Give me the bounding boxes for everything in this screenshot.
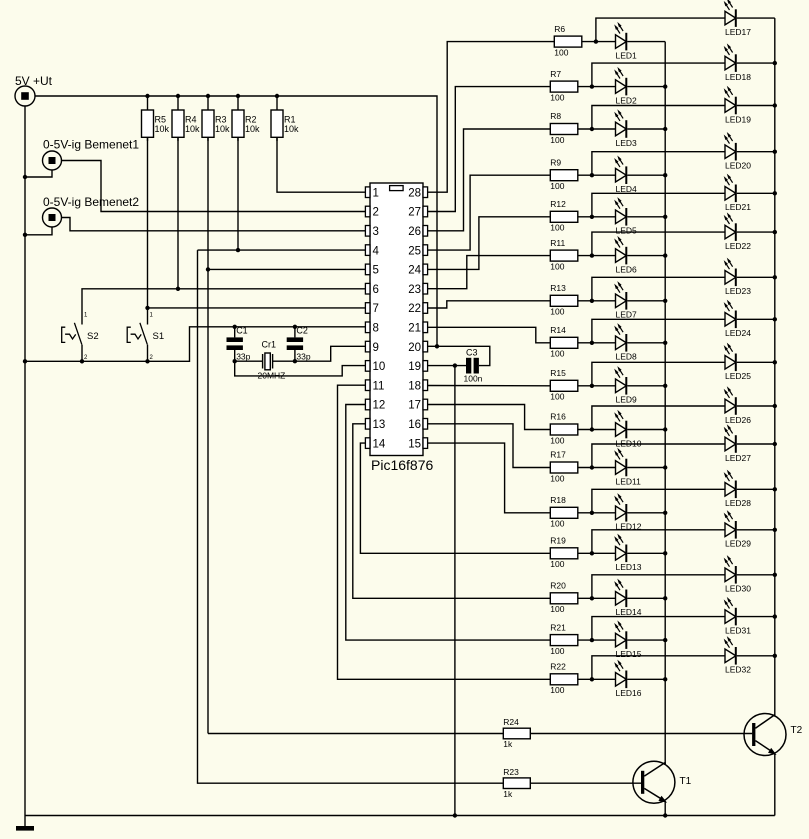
junction node row14 (590, 596, 594, 600)
wire Bemenet2 ground (25, 227, 52, 235)
wire pin5 to R24 (208, 733, 503, 735)
svg-text:LED24: LED24 (725, 328, 751, 338)
LED10 (614, 410, 642, 449)
wire node to LED22 (592, 232, 725, 256)
svg-text:S2: S2 (87, 331, 99, 342)
svg-text:100n: 100n (464, 374, 483, 384)
wire node to LED27 (592, 444, 725, 468)
svg-text:9: 9 (373, 342, 379, 354)
svg-text:10k: 10k (215, 124, 230, 134)
LED16 (614, 660, 642, 699)
junction LED25 bus (773, 360, 777, 364)
svg-text:LED18: LED18 (725, 72, 751, 82)
capacitor C1 33p (227, 326, 251, 362)
wire pin6 net (82, 289, 365, 325)
resistor R7 100 (550, 69, 578, 103)
resistor R9 100 (550, 157, 578, 191)
junction node row8 (590, 341, 594, 345)
wire LED15 cathode (627, 639, 665, 641)
junction LED23 bus (773, 275, 777, 279)
wire LED4 cathode (627, 174, 665, 176)
junction node row6 (590, 253, 594, 257)
svg-text:100: 100 (550, 92, 564, 102)
wire T1 emitter (664, 801, 666, 815)
LED3 (614, 109, 637, 148)
svg-text:100: 100 (550, 604, 564, 614)
junction LED12 bus (663, 511, 667, 515)
svg-text:R8: R8 (550, 111, 561, 121)
svg-text:100: 100 (550, 519, 564, 529)
junction LED5 bus (663, 215, 667, 219)
wire R19 to LED13 (578, 552, 616, 554)
wire LED30 cathode (737, 574, 775, 576)
wire LED31 cathode (737, 616, 775, 618)
svg-text:4: 4 (373, 245, 380, 257)
svg-text:10k: 10k (284, 124, 299, 134)
wire ground rail (25, 815, 775, 817)
svg-text:15: 15 (408, 438, 421, 450)
junction LED27 bus (773, 442, 777, 446)
svg-text:C3: C3 (466, 348, 478, 358)
LED2 (614, 67, 637, 106)
svg-text:100: 100 (550, 349, 564, 359)
svg-text:LED19: LED19 (725, 114, 751, 124)
svg-text:100: 100 (550, 392, 564, 402)
wire S1 bottom junction (145, 359, 149, 363)
LED11 (614, 448, 641, 487)
svg-text:24: 24 (408, 265, 421, 277)
svg-text:20: 20 (408, 342, 421, 354)
LED5 (614, 197, 637, 236)
LED22 (724, 212, 752, 251)
svg-text:LED22: LED22 (725, 241, 751, 251)
wire C1 node to pin10 (235, 361, 366, 376)
svg-text:LED16: LED16 (616, 688, 642, 698)
junction +5V/R3 (206, 94, 210, 98)
wire R11 to LED6 (578, 255, 616, 257)
svg-text:R15: R15 (550, 368, 566, 378)
wire node to LED17 (596, 18, 725, 41)
junction LED21 bus (773, 191, 777, 195)
wire R18 to LED12 (578, 512, 616, 514)
junction LED15 bus (663, 638, 667, 642)
junction node row11 (590, 465, 594, 469)
junction LED24 bus (773, 317, 777, 321)
svg-text:LED15: LED15 (616, 649, 642, 659)
wire LED19 cathode (737, 105, 775, 107)
LED8 (614, 323, 637, 362)
resistor R11 100 (550, 238, 578, 272)
switch S2 (62, 313, 99, 362)
wire pin4 to R23 (198, 250, 504, 783)
wire R21 to LED15 (578, 639, 616, 641)
LED19 (724, 86, 752, 125)
junction LED18 bus (773, 61, 777, 65)
LED31 (724, 597, 752, 636)
junction C1 bottom (233, 359, 237, 363)
wire LED8 cathode (627, 342, 665, 344)
wire R13 to LED7 (578, 300, 616, 302)
svg-text:LED28: LED28 (725, 498, 751, 508)
junction node row2 (590, 84, 594, 88)
svg-text:100: 100 (550, 135, 564, 145)
LED20 (724, 132, 752, 171)
svg-text:R9: R9 (550, 157, 561, 167)
junction LED19 bus (773, 103, 777, 107)
junction Bemenet2 gnd (23, 233, 27, 237)
wire pin19 VSS (428, 365, 466, 367)
wire R2 to pin4 net (237, 137, 239, 250)
svg-text:LED20: LED20 (725, 161, 751, 171)
wire LED1 cathode (627, 41, 665, 43)
svg-text:8: 8 (373, 323, 379, 335)
wire pin23 to R11 (428, 256, 551, 289)
junction LED3 bus (663, 127, 667, 131)
svg-text:100: 100 (550, 307, 564, 317)
svg-text:100: 100 (550, 181, 564, 191)
connector Bemenet1 (43, 138, 140, 171)
svg-text:LED25: LED25 (725, 371, 751, 381)
junction LED11 bus (663, 465, 667, 469)
power connector 5V +Ut (15, 74, 53, 106)
svg-text:6: 6 (373, 284, 379, 296)
junction R2/pin4 (236, 248, 240, 252)
wire LED22 cathode (737, 231, 775, 233)
svg-text:LED11: LED11 (616, 476, 642, 486)
svg-text:T2: T2 (791, 725, 803, 736)
wire T2 emitter (774, 754, 776, 816)
wire node to LED25 (592, 362, 725, 386)
junction node row16 (590, 677, 594, 681)
svg-text:10k: 10k (245, 124, 260, 134)
wire pin8 ground net (25, 327, 365, 362)
LED7 (614, 281, 637, 320)
junction R5/S1/pin7 (145, 306, 149, 310)
wire T1 collector (664, 763, 666, 765)
wire R5 to S1/pin7 (147, 137, 149, 308)
resistor R22 100 (550, 662, 578, 696)
LED21 (724, 174, 752, 213)
wire R24 to T2 base (530, 733, 752, 735)
wire LED32 cathode (737, 655, 775, 657)
junction LED14 bus (663, 596, 667, 600)
wire R20 to LED14 (578, 597, 616, 599)
resistor R14 100 (550, 325, 578, 359)
resistor R20 100 (550, 581, 578, 615)
svg-text:R24: R24 (503, 717, 519, 727)
wire node to LED28 (592, 489, 725, 513)
wire LED18 cathode (737, 62, 775, 64)
wire node to LED24 (592, 319, 725, 343)
wire R4 to pin6 net (177, 137, 179, 288)
junction pin20 VDD (435, 344, 439, 348)
junction LED7 bus (663, 299, 667, 303)
wire R3 to pin5 and R24 (207, 137, 209, 733)
svg-text:LED26: LED26 (725, 415, 751, 425)
junction LED16 bus (663, 677, 667, 681)
svg-text:LED14: LED14 (616, 607, 642, 617)
wire pin28 to R6 (428, 42, 555, 193)
svg-text:C1: C1 (236, 326, 248, 336)
wire left cathode bus (664, 42, 666, 764)
junction node row9 (590, 384, 594, 388)
wire LED28 cathode (737, 488, 775, 490)
svg-text:R19: R19 (550, 536, 566, 546)
wire node to LED29 (592, 530, 725, 554)
junction LED8 bus (663, 341, 667, 345)
wire LED16 cathode (627, 678, 665, 680)
wire LED25 cathode (737, 361, 775, 363)
junction LED13 bus (663, 551, 667, 555)
svg-text:R2: R2 (245, 115, 257, 125)
junction node row4 (590, 173, 594, 177)
svg-text:R13: R13 (550, 283, 566, 293)
LED13 (614, 534, 642, 573)
ground (16, 816, 34, 831)
LED27 (724, 424, 752, 463)
wire R7 to LED2 (578, 86, 616, 88)
wire node to LED18 (592, 63, 725, 87)
wire pin5 net (208, 268, 365, 270)
svg-text:R1: R1 (284, 115, 296, 125)
svg-text:100: 100 (550, 223, 564, 233)
resistor R12 100 (550, 199, 578, 233)
wire pin18 to R15 (428, 385, 551, 387)
svg-text:Pic16f876: Pic16f876 (371, 457, 433, 473)
wire LED6 cathode (627, 255, 665, 257)
IC U1 Pic16f876 microcontroller (365, 183, 433, 473)
svg-text:LED21: LED21 (725, 202, 751, 212)
resistor R5 10k pull-up (142, 96, 170, 141)
LED12 (614, 493, 642, 531)
svg-text:27: 27 (408, 207, 421, 219)
switch S1 body (127, 313, 164, 362)
svg-text:R3: R3 (215, 115, 227, 125)
junction LED10 bus (663, 427, 667, 431)
junction LED31 bus (773, 614, 777, 618)
wire LED5 cathode (627, 216, 665, 218)
LED26 (724, 386, 752, 425)
wire node to LED23 (592, 277, 725, 301)
svg-text:10k: 10k (185, 124, 200, 134)
svg-text:100: 100 (550, 261, 564, 271)
svg-text:10: 10 (373, 361, 386, 373)
capacitor C3 100n (464, 348, 483, 384)
svg-text:S1: S1 (153, 331, 165, 342)
svg-text:16: 16 (408, 419, 421, 431)
junction +5V/R2 (236, 94, 240, 98)
resistor R1 10k pull-up (271, 96, 299, 141)
LED29 (724, 510, 752, 548)
junction +5V/R4 (176, 94, 180, 98)
wire R6 to LED1 (582, 41, 616, 43)
resistor R18 100 (550, 495, 578, 529)
svg-text:33p: 33p (236, 351, 250, 361)
wire LED10 cathode (627, 429, 665, 431)
wire LED23 cathode (737, 276, 775, 278)
wire LED12 cathode (627, 512, 665, 514)
junction LED29 bus (773, 528, 777, 532)
svg-text:R11: R11 (550, 238, 565, 248)
resistor R8 100 (550, 111, 578, 145)
resistor R21 100 (550, 622, 578, 656)
svg-text:R17: R17 (550, 450, 566, 460)
wire pin25 to R9 (428, 175, 551, 250)
wire node to LED21 (592, 193, 725, 217)
wire pin27 to R7 (428, 87, 551, 212)
transistor T2 (744, 714, 803, 756)
svg-text:R20: R20 (550, 581, 566, 591)
junction node row15 (590, 638, 594, 642)
svg-text:18: 18 (408, 380, 421, 392)
junction +5V/R1 (275, 94, 279, 98)
crystal Cr1 20MHZ (235, 340, 295, 381)
wire pin17 to R16 (428, 405, 551, 430)
svg-text:100: 100 (554, 47, 568, 57)
svg-text:0-5V-ig Bemenet2: 0-5V-ig Bemenet2 (43, 195, 139, 209)
LED4 (614, 156, 637, 195)
junction C2 bottom (293, 359, 297, 363)
junction node row7 (590, 299, 594, 303)
junction pin19 C3 (453, 363, 457, 367)
junction Bemenet1 gnd (23, 175, 27, 179)
svg-text:23: 23 (408, 284, 421, 296)
svg-text:R6: R6 (554, 24, 565, 34)
wire pin19 to ground rail (454, 366, 456, 816)
LED14 (614, 579, 642, 618)
svg-text:LED30: LED30 (725, 584, 751, 594)
wire pin15 to R18 (428, 443, 551, 513)
svg-text:LED5: LED5 (616, 226, 638, 236)
wire LED11 cathode (627, 467, 665, 469)
LED28 (724, 470, 752, 509)
resistor R4 10k pull-up (172, 96, 200, 141)
svg-text:LED13: LED13 (616, 562, 642, 572)
svg-text:100: 100 (550, 685, 564, 695)
junction gnd rail left (23, 359, 27, 363)
junction T1 emitter gnd (663, 813, 667, 817)
junction node row13 (590, 551, 594, 555)
wire LED27 cathode (737, 443, 775, 445)
wire pin7 net (148, 307, 366, 309)
wire pin11 to R22 (338, 385, 551, 679)
svg-text:LED3: LED3 (616, 138, 638, 148)
svg-text:R23: R23 (503, 767, 519, 777)
LED32 (724, 636, 752, 675)
svg-text:R12: R12 (550, 199, 566, 209)
resistor R17 100 (550, 450, 578, 484)
LED6 (614, 236, 637, 275)
wire node to LED26 (592, 406, 725, 430)
wire S2 bottom junction (80, 359, 84, 363)
wire Bemenet2 to pin3 (62, 218, 366, 231)
svg-text:LED23: LED23 (725, 286, 751, 296)
svg-text:LED4: LED4 (616, 184, 638, 194)
svg-text:100: 100 (550, 473, 564, 483)
svg-text:2: 2 (373, 207, 379, 219)
resistor R6 100 (554, 24, 582, 58)
wire R1 to pin1 (277, 137, 365, 192)
junction LED30 bus (773, 573, 777, 577)
wire pin22 to R13 (428, 301, 551, 308)
wire LED3 cathode (627, 128, 665, 130)
svg-text:12: 12 (373, 400, 386, 412)
capacitor C2 33p (287, 326, 311, 362)
wire node to LED20 (592, 152, 725, 176)
svg-text:R7: R7 (550, 69, 561, 79)
svg-text:R4: R4 (185, 115, 197, 125)
resistor R13 100 (550, 283, 578, 317)
svg-text:7: 7 (373, 303, 379, 315)
svg-text:100: 100 (550, 646, 564, 656)
svg-text:R14: R14 (550, 325, 566, 335)
wire pin16 to R17 (428, 424, 551, 468)
svg-text:LED8: LED8 (616, 352, 638, 362)
svg-text:5V +Ut: 5V +Ut (15, 74, 53, 88)
wire LED14 cathode (627, 597, 665, 599)
junction node row12 (590, 511, 594, 515)
wire Bemenet1 ground (25, 170, 52, 177)
wire LED17 cathode (737, 17, 775, 19)
resistor R23 1k (503, 767, 530, 799)
svg-text:11: 11 (373, 380, 385, 392)
svg-text:21: 21 (408, 323, 421, 335)
wire pin20 VDD (428, 345, 437, 347)
wire LED7 cathode (627, 300, 665, 302)
svg-text:R5: R5 (155, 115, 167, 125)
wire pin14 to R19 (360, 443, 550, 553)
wire pin26 to R8 (428, 129, 551, 231)
junction node row10 (590, 427, 594, 431)
svg-text:R16: R16 (550, 412, 566, 422)
wire node to LED32 (592, 656, 725, 680)
wire LED2 cathode (627, 86, 665, 88)
junction LED20 bus (773, 150, 777, 154)
svg-text:LED32: LED32 (725, 665, 751, 675)
wire LED9 cathode (627, 385, 665, 387)
resistor R24 1k (503, 717, 530, 749)
wire R8 to LED3 (578, 128, 616, 130)
svg-text:28: 28 (408, 187, 421, 199)
wire R14 to LED8 (578, 342, 616, 344)
wire R15 to LED9 (578, 385, 616, 387)
wire pin12 to R21 (346, 405, 551, 641)
wire Bemenet1 to pin2 (62, 161, 366, 212)
wire R23 to T1 base (530, 782, 641, 784)
wire +5V rail (35, 96, 437, 346)
LED17 (724, 0, 752, 37)
LED23 (724, 258, 752, 297)
wire R17 to LED11 (578, 467, 616, 469)
wire right cathode bus (774, 18, 776, 715)
svg-text:19: 19 (408, 361, 421, 373)
junction LED22 bus (773, 230, 777, 234)
junction R3/pin5 (206, 267, 210, 271)
wire R16 to LED10 (578, 429, 616, 431)
LED24 (724, 300, 752, 339)
wire LED13 cathode (627, 552, 665, 554)
svg-text:33p: 33p (296, 351, 310, 361)
junction rail C3 gnd (453, 813, 457, 817)
LED18 (724, 43, 752, 82)
svg-text:100: 100 (550, 435, 564, 445)
wire LED26 cathode (737, 405, 775, 407)
svg-text:13: 13 (373, 419, 386, 431)
junction node row1 (594, 39, 598, 43)
wire R22 to LED16 (578, 678, 616, 680)
resistor R15 100 (550, 368, 578, 402)
svg-text:Cr1: Cr1 (262, 340, 277, 350)
